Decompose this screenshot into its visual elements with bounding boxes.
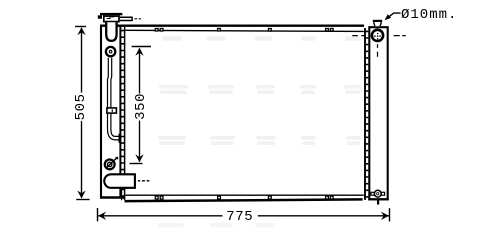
svg-text:350: 350	[133, 93, 149, 120]
dim 775 left tick	[97, 208, 99, 221]
overflow pipe dashes	[135, 18, 141, 20]
left strip rungs	[121, 31, 125, 197]
top header inner thin line	[125, 30, 363, 31]
inlet stub	[373, 20, 382, 26]
right tank bottom thick	[368, 198, 388, 200]
bleed screw	[105, 160, 115, 170]
left tank right edge	[119, 25, 121, 198]
watermark row 1	[159, 85, 361, 94]
lower oil tube with elbow	[108, 114, 120, 140]
drain fitting	[371, 192, 374, 195]
filler U-tube	[106, 22, 116, 41]
svg-text:775: 775	[226, 209, 253, 225]
tube union fitting	[107, 108, 117, 113]
right side-plate strip (ladder)	[364, 28, 366, 200]
ring fitting (donut)	[106, 47, 115, 56]
right strip rungs	[364, 31, 368, 197]
elbow end cap	[119, 135, 121, 143]
inlet port circle	[372, 30, 383, 41]
dim 775 arrows	[98, 212, 106, 220]
dim 775 right tick	[389, 208, 391, 221]
drain stem	[377, 200, 379, 205]
upper oil tube	[108, 58, 112, 109]
left tank left edge	[100, 25, 102, 199]
left side-plate strip (ladder)	[122, 27, 125, 200]
svg-text:Ø10mm.: Ø10mm.	[401, 7, 457, 23]
outlet pipe dashes	[138, 180, 150, 182]
watermark row 0	[162, 36, 360, 41]
filler neck step glyph	[107, 17, 114, 19]
filler neck body	[104, 16, 119, 22]
dim 505 line	[81, 28, 83, 198]
dim 505 bottom tick	[76, 199, 89, 201]
left tank bottom	[100, 196, 125, 198]
leader line for Ø10mm	[387, 13, 401, 19]
dim 350 top tick	[132, 46, 151, 48]
dim 505 top tick	[75, 26, 86, 28]
bottom header tabs	[155, 196, 333, 199]
top header outer thick line	[100, 24, 364, 26]
right tank	[369, 27, 387, 199]
outlet pipe	[104, 174, 135, 188]
dim 350 line	[139, 48, 141, 161]
filler neck flange bar	[100, 13, 122, 15]
dim 350 bottom tick	[130, 163, 143, 165]
port dash-dot centerlines	[352, 36, 405, 57]
top header tabs	[155, 29, 333, 32]
watermark row 3	[158, 223, 275, 228]
watermark row 2	[158, 136, 361, 145]
dim 350 arrows	[135, 48, 143, 56]
bottom header inner thin line	[125, 194, 363, 196]
filler neck flange foot	[98, 15, 102, 18]
svg-text:505: 505	[73, 93, 89, 120]
port crosshair dots	[374, 33, 381, 40]
bottom header outer thick line	[125, 199, 363, 201]
overflow pipe	[120, 17, 132, 22]
dim 775 line	[98, 215, 389, 217]
dim 505 arrows	[77, 27, 85, 35]
